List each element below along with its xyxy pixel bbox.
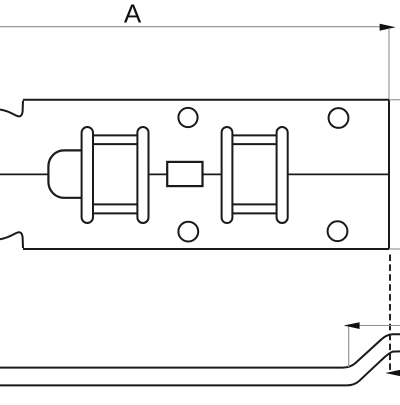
plate right edge <box>388 100 390 249</box>
bottom right arrowhead <box>385 370 400 377</box>
bolt knob <box>48 150 85 197</box>
bolt rod left segment <box>0 173 48 175</box>
extension line right of plate bottom corner <box>389 248 400 250</box>
guide 1 right capsule <box>137 127 148 223</box>
dimension A line <box>0 26 381 28</box>
extension line right of plate top corner <box>389 99 400 101</box>
guide 1 left capsule <box>82 127 93 223</box>
guide 2 rails <box>227 135 282 213</box>
bolt rod segment between guide 1 and handle <box>149 173 168 175</box>
guide 2 right capsule <box>277 127 288 223</box>
bottom right dimension line <box>390 372 400 374</box>
side view bottom surface <box>0 351 400 385</box>
bend dimension arrowhead <box>344 322 360 329</box>
plate top edge <box>23 99 389 101</box>
dimension A arrowhead <box>380 24 396 31</box>
screw hole bottom-left <box>178 222 198 242</box>
plate left break line top <box>0 101 23 117</box>
bolt rod segment between handle and guide 2 <box>203 173 222 175</box>
bolt rod right segment <box>288 173 389 175</box>
dashed centerline <box>389 255 391 374</box>
guide 1 rails <box>87 135 143 213</box>
plate bottom edge <box>23 248 389 250</box>
plate left break line bottom <box>0 232 23 248</box>
screw hole top-right <box>329 108 349 128</box>
bend dimension line <box>348 325 400 327</box>
screw hole bottom-right <box>328 221 348 241</box>
bend dimension extension line <box>348 326 350 368</box>
svg-text:A: A <box>124 0 142 29</box>
side view top surface <box>0 334 400 367</box>
guide 2 left capsule <box>222 127 233 223</box>
handle rectangle <box>167 162 202 186</box>
screw hole top-left <box>178 108 197 127</box>
extension line right top <box>388 28 390 99</box>
